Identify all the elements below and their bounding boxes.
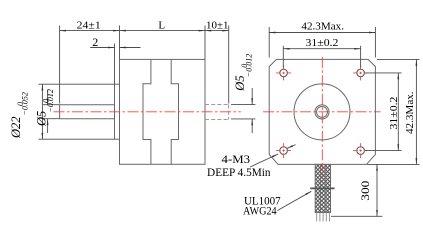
svg-text:L: L <box>158 20 165 32</box>
svg-text:0: 0 <box>16 102 25 106</box>
svg-text:AWG24: AWG24 <box>243 204 277 218</box>
svg-text:42.3Max.: 42.3Max. <box>404 91 416 134</box>
svg-text:42.3Max.: 42.3Max. <box>301 20 344 32</box>
svg-text:DEEP 4.5Min: DEEP 4.5Min <box>207 165 271 179</box>
svg-text:31±0.2: 31±0.2 <box>388 97 400 130</box>
svg-text:10±1: 10±1 <box>206 19 229 31</box>
svg-text:24±1: 24±1 <box>77 20 101 32</box>
svg-text:300: 300 <box>360 180 372 200</box>
svg-text:31±0.2: 31±0.2 <box>306 37 339 49</box>
svg-text:4-M3: 4-M3 <box>222 152 251 166</box>
svg-text:Ø22: Ø22 <box>9 116 23 139</box>
svg-text:0: 0 <box>240 64 249 68</box>
svg-text:0: 0 <box>41 99 50 103</box>
svg-text:2: 2 <box>92 35 98 49</box>
